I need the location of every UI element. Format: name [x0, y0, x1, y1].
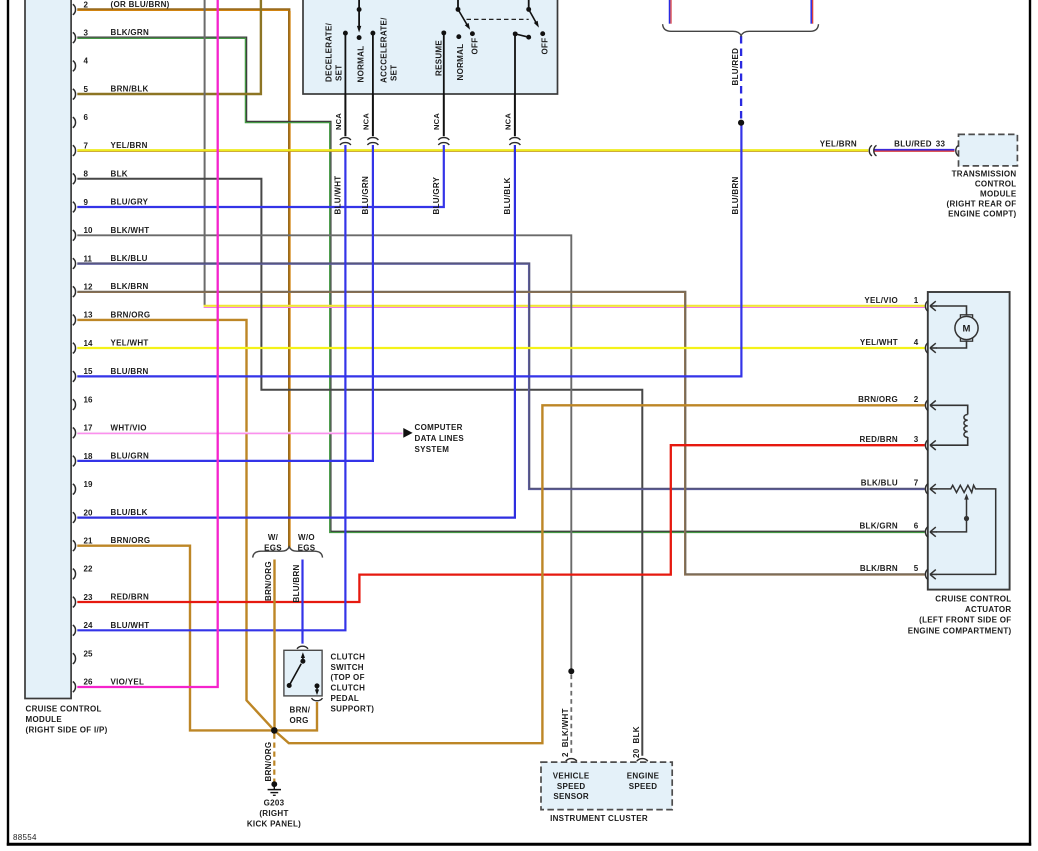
svg-text:12: 12	[84, 283, 93, 292]
pin 18 connector arc on module	[73, 456, 76, 467]
wire pin17 WHT/VIO module to computer data lines arrow	[77, 431, 402, 433]
svg-text:CONTROL: CONTROL	[975, 180, 1017, 189]
node clutch contact right	[315, 683, 320, 688]
off contact wire (BLU/BLK)	[514, 34, 516, 95]
svg-text:OFF: OFF	[471, 38, 480, 55]
svg-text:G203: G203	[264, 799, 285, 808]
svg-text:ENGINE: ENGINE	[627, 772, 660, 781]
svg-text:4: 4	[84, 57, 89, 66]
wire YEL/VIO from top (gray) elbow to actuator pin1	[204, 0, 206, 305]
svg-text:(LEFT FRONT SIDE OF: (LEFT FRONT SIDE OF	[919, 616, 1011, 625]
node splice BLU/RED to BLU/BRN	[738, 120, 744, 126]
svg-text:21: 21	[84, 536, 93, 545]
svg-text:11: 11	[84, 254, 93, 263]
pin 20 connector arc on module	[73, 512, 76, 523]
switch right arm to OFF	[529, 9, 537, 24]
connector engine speed pin 20	[637, 759, 648, 762]
svg-text:3: 3	[84, 29, 89, 38]
svg-text:19: 19	[84, 480, 93, 489]
svg-text:YEL/BRN: YEL/BRN	[111, 141, 148, 150]
svg-text:PEDAL: PEDAL	[331, 694, 360, 703]
svg-text:SET: SET	[334, 65, 343, 81]
svg-text:NCA: NCA	[334, 113, 343, 130]
pin 15 connector arc on module	[73, 371, 76, 382]
wire BLU/RED stub right above brace	[810, 0, 812, 24]
svg-text:14: 14	[84, 339, 93, 348]
pin 17 connector arc on module	[73, 428, 76, 439]
ground G203	[268, 781, 281, 795]
wire pin10 BLK/WHT module to vehicle speed sensor	[77, 235, 571, 671]
node normal contact left	[357, 35, 362, 40]
svg-text:NORMAL: NORMAL	[456, 44, 465, 81]
wire pin14 YEL/WHT module to actuator pin4	[77, 347, 925, 349]
svg-text:M: M	[963, 324, 971, 335]
svg-text:NCA: NCA	[432, 113, 441, 130]
motor M	[960, 315, 972, 320]
resistor (potentiometer)	[937, 485, 996, 574]
svg-text:NCA: NCA	[361, 113, 370, 130]
wire pin20 BLU/BLK module to switch connector	[77, 145, 515, 518]
decelerate contact wire	[344, 33, 346, 94]
pin 23 connector arc on module	[73, 597, 76, 608]
svg-text:BRN/BLK: BRN/BLK	[111, 85, 149, 94]
svg-text:CLUTCH: CLUTCH	[331, 684, 366, 693]
svg-text:7: 7	[84, 141, 89, 150]
switch right pivot stem	[528, 0, 530, 9]
svg-text:(RIGHT: (RIGHT	[259, 809, 288, 818]
wire BLU/BRN W/O EGS brace to clutch switch	[301, 560, 303, 644]
pin 11 connector arc on module	[73, 258, 76, 269]
svg-text:22: 22	[84, 565, 93, 574]
actuator pin 4 connector and arrow	[925, 343, 928, 354]
pin 26 connector arc on module	[73, 682, 76, 693]
svg-text:BLK/BRN: BLK/BRN	[860, 564, 898, 573]
svg-text:BLK/BLU: BLK/BLU	[111, 254, 148, 263]
pin 14 connector arc on module	[73, 343, 76, 354]
coil (solenoid)	[964, 415, 968, 438]
svg-text:6: 6	[84, 113, 89, 122]
connector in BLU/GRY wire	[438, 138, 449, 140]
arrow right OFF arm	[534, 21, 539, 28]
brace BLU/RED splice (top right)	[663, 24, 819, 36]
wire pin3 BLK/GRN module to actuator pin6	[77, 37, 925, 531]
svg-text:BRN/ORG: BRN/ORG	[264, 742, 273, 782]
wire pin15 BLU/BRN module to splice below BLU/RED	[77, 123, 741, 377]
instrument cluster box (dashed)	[541, 762, 672, 810]
svg-text:BLU/BRN: BLU/BRN	[292, 564, 301, 602]
svg-text:ACCCELERATE/: ACCCELERATE/	[380, 17, 389, 83]
svg-text:YEL/WHT: YEL/WHT	[111, 339, 149, 348]
svg-text:2: 2	[84, 0, 89, 9]
node pivot right	[526, 7, 531, 12]
svg-text:8: 8	[84, 170, 89, 179]
svg-text:BLK: BLK	[111, 169, 128, 178]
svg-text:BRN/: BRN/	[290, 706, 311, 715]
svg-text:SPEED: SPEED	[557, 782, 586, 791]
node arm end right	[526, 35, 531, 40]
connector at TCM pin 33	[956, 145, 959, 156]
svg-text:CLUTCH: CLUTCH	[331, 652, 366, 661]
svg-text:1: 1	[914, 296, 919, 305]
svg-text:BRN/ORG: BRN/ORG	[264, 561, 273, 601]
svg-text:BLU/GRY: BLU/GRY	[111, 198, 149, 207]
svg-text:VIO/YEL: VIO/YEL	[111, 677, 145, 686]
svg-text:BLU/GRY: BLU/GRY	[432, 176, 441, 214]
node decel contact	[343, 31, 348, 36]
wire BRN/ORG junction to actuator pin2	[274, 405, 925, 743]
svg-text:BLK/WHT: BLK/WHT	[111, 226, 150, 235]
arrow middle OFF arm	[465, 23, 470, 30]
svg-text:ORG: ORG	[290, 716, 309, 725]
actuator pin 3 connector and arrow	[925, 440, 928, 451]
svg-text:BLU/RED: BLU/RED	[894, 140, 932, 149]
svg-text:SET: SET	[390, 65, 399, 81]
svg-text:RED/BRN: RED/BRN	[111, 593, 150, 602]
svg-text:VEHICLE: VEHICLE	[553, 772, 590, 781]
svg-text:EGS: EGS	[264, 544, 282, 553]
wire pin12 BLK/BRN module to actuator pin5	[77, 292, 925, 575]
connector vehicle speed sensor pin 2	[566, 759, 577, 762]
pin 4 connector arc on module	[73, 61, 76, 72]
pin 5 connector arc on module	[73, 89, 76, 100]
cruise control module box	[25, 0, 71, 699]
svg-text:W/O: W/O	[298, 533, 315, 542]
svg-text:COMPUTER: COMPUTER	[415, 423, 463, 432]
wire pin18 BLU/GRN module to switch connector	[77, 145, 373, 461]
pin 16 connector arc on module	[73, 399, 76, 410]
node off contact middle	[470, 31, 475, 36]
svg-text:20 BLK: 20 BLK	[632, 726, 641, 758]
svg-text:BLU/WHT: BLU/WHT	[334, 176, 343, 215]
actuator pin 2 connector and arrow	[925, 400, 928, 411]
svg-text:2 BLK/WHT: 2 BLK/WHT	[561, 708, 570, 757]
wire BLU/RED stub left above brace	[669, 0, 671, 24]
wire NCA stub for BLU/BLK	[514, 95, 516, 137]
connector pair YEL/BRN to BLU/RED	[869, 145, 872, 156]
actuator pin 6 connector and arrow	[925, 527, 928, 538]
svg-text:DATA LINES: DATA LINES	[415, 434, 465, 443]
pin 19 connector arc on module	[73, 484, 76, 495]
connector in BLU/WHT wire	[340, 138, 351, 140]
pin 25 connector arc on module	[73, 653, 76, 664]
pin 10 connector arc on module	[73, 230, 76, 241]
svg-text:3: 3	[914, 435, 919, 444]
pin 7 connector arc on module	[73, 145, 76, 156]
wire NCA stub for BLU/GRY	[443, 95, 445, 137]
svg-text:(OR BLU/BRN): (OR BLU/BRN)	[111, 0, 170, 9]
svg-text:BRN/ORG: BRN/ORG	[111, 536, 151, 545]
svg-text:SUPPORT): SUPPORT)	[331, 705, 375, 714]
svg-text:TRANSMISSION: TRANSMISSION	[952, 170, 1017, 179]
pin 8 connector arc on module	[73, 174, 76, 185]
node pivot left	[357, 7, 362, 12]
svg-text:KICK PANEL): KICK PANEL)	[247, 820, 301, 829]
node pivot middle	[456, 7, 461, 12]
svg-text:(RIGHT SIDE OF I/P): (RIGHT SIDE OF I/P)	[26, 726, 108, 735]
connector above clutch switch	[297, 646, 308, 649]
svg-text:25: 25	[84, 649, 93, 658]
dashed gang link between OFF arms	[467, 18, 529, 20]
wire BLU/RED dashed from brace to splice dot	[740, 36, 742, 120]
svg-text:88554: 88554	[13, 833, 37, 842]
svg-text:BLK/BRN: BLK/BRN	[111, 282, 149, 291]
svg-text:4: 4	[914, 338, 919, 347]
svg-text:13: 13	[84, 311, 93, 320]
wire pin26 VIO/YEL module up off-page	[77, 0, 217, 687]
svg-text:BLU/BLK: BLU/BLK	[503, 177, 512, 214]
svg-text:ENGINE COMPARTMENT): ENGINE COMPARTMENT)	[908, 626, 1012, 635]
svg-text:ENGINE COMPT): ENGINE COMPT)	[948, 210, 1016, 219]
brace W/ EGS - W/O EGS split	[253, 547, 323, 558]
svg-text:BLU/BLK: BLU/BLK	[111, 508, 148, 517]
clutch switch box	[284, 650, 322, 696]
wire BRN/ORG clutch switch to junction	[274, 702, 317, 730]
pin 12 connector arc on module	[73, 286, 76, 297]
svg-text:YEL/WHT: YEL/WHT	[860, 338, 898, 347]
svg-text:RESUME: RESUME	[435, 40, 444, 76]
svg-text:RED/BRN: RED/BRN	[859, 435, 898, 444]
node wiper dot	[964, 516, 969, 521]
node off contact right	[540, 31, 545, 36]
svg-text:24: 24	[84, 621, 93, 630]
svg-text:BLK/GRN: BLK/GRN	[859, 522, 898, 531]
pin 21 connector arc on module	[73, 540, 76, 551]
pin 9 connector arc on module	[73, 202, 76, 213]
actuator pin 5 connector and arrow	[925, 569, 928, 580]
svg-text:BLU/BRN: BLU/BRN	[731, 176, 740, 214]
svg-text:SWITCH: SWITCH	[331, 663, 364, 672]
svg-text:BRN/ORG: BRN/ORG	[858, 395, 898, 404]
node clutch arm pivot	[300, 659, 305, 664]
svg-text:BLK/GRN: BLK/GRN	[111, 28, 150, 37]
svg-text:DECELERATE/: DECELERATE/	[325, 22, 334, 82]
wire NCA stub for BLU/WHT	[344, 95, 346, 137]
pin 13 connector arc on module	[73, 315, 76, 326]
svg-text:YEL/BRN: YEL/BRN	[820, 140, 857, 149]
cruise control switch assembly box	[303, 0, 558, 94]
pin 22 connector arc on module	[73, 569, 76, 580]
svg-text:33: 33	[936, 140, 946, 149]
svg-text:W/: W/	[268, 533, 279, 542]
svg-text:5: 5	[84, 85, 89, 94]
svg-text:6: 6	[914, 522, 919, 531]
svg-text:(TOP OF: (TOP OF	[331, 673, 365, 682]
pin 6 connector arc on module	[73, 117, 76, 128]
node junction BRN/ORG	[271, 727, 278, 734]
svg-text:BLK/BLU: BLK/BLU	[861, 479, 898, 488]
motor circuit wiring	[937, 306, 967, 315]
svg-text:YEL/VIO: YEL/VIO	[864, 296, 898, 305]
wire pin21 BRN/ORG module to junction	[77, 546, 272, 731]
svg-text:SPEED: SPEED	[629, 782, 658, 791]
svg-text:BLU/RED: BLU/RED	[731, 48, 740, 86]
accelerate contact wire	[372, 33, 374, 94]
svg-text:NORMAL: NORMAL	[356, 46, 365, 83]
actuator pin 7 connector and arrow	[925, 484, 928, 495]
svg-text:9: 9	[84, 198, 89, 207]
svg-text:10: 10	[84, 226, 93, 235]
node splice BLK/WHT	[568, 668, 574, 674]
pin 2 connector arc on module	[73, 4, 76, 15]
svg-text:BLU/GRN: BLU/GRN	[111, 452, 150, 461]
wire pin2 BRN/BLK (OR BLU/BRN) module to EGS brace	[77, 10, 289, 549]
node accel contact	[370, 31, 375, 36]
svg-text:WHT/VIO: WHT/VIO	[111, 423, 147, 432]
svg-text:MODULE: MODULE	[980, 190, 1017, 199]
wire pin9 BLU/GRY module to switch connector	[77, 145, 444, 207]
resume contact wire	[443, 33, 445, 95]
arrow computer data lines system	[403, 428, 412, 438]
wire pin7 YEL/BRN module to TCM connector	[77, 149, 868, 151]
actuator pin 1 connector and arrow	[925, 301, 928, 312]
svg-text:23: 23	[84, 593, 93, 602]
switch arm set/resume common from top	[358, 0, 360, 29]
svg-text:NCA: NCA	[503, 113, 512, 130]
node clutch contact left	[287, 683, 292, 688]
clutch switch arm	[289, 664, 301, 686]
arrow normal (left group)	[357, 26, 361, 33]
svg-text:2: 2	[914, 395, 919, 404]
svg-text:BRN/ORG: BRN/ORG	[111, 310, 151, 319]
switch middle pivot stem	[457, 0, 459, 9]
svg-text:7: 7	[914, 479, 919, 488]
wire pin5 BRN/BLK module up off-page	[77, 0, 261, 94]
svg-text:16: 16	[84, 395, 93, 404]
connector in BLU/BLK wire	[509, 138, 520, 140]
wire pin11 BLK/BLU module to actuator pin7	[77, 264, 925, 489]
svg-text:ACTUATOR: ACTUATOR	[965, 605, 1012, 614]
node resume contact	[441, 30, 446, 35]
pin 3 connector arc on module	[73, 32, 76, 43]
wire NCA stub for BLU/GRN	[372, 95, 374, 137]
pin 24 connector arc on module	[73, 625, 76, 636]
connector below clutch switch	[312, 698, 323, 701]
transmission control module box (dashed)	[959, 134, 1018, 166]
node normal contact middle	[456, 34, 461, 39]
svg-text:CRUISE CONTROL: CRUISE CONTROL	[935, 595, 1011, 604]
svg-text:CRUISE CONTROL: CRUISE CONTROL	[26, 705, 102, 714]
coil circuit wiring	[937, 405, 968, 414]
svg-text:18: 18	[84, 452, 93, 461]
svg-text:BLU/GRN: BLU/GRN	[361, 176, 370, 215]
svg-text:SENSOR: SENSOR	[553, 792, 589, 801]
svg-text:INSTRUMENT CLUSTER: INSTRUMENT CLUSTER	[550, 814, 648, 823]
svg-text:17: 17	[84, 424, 93, 433]
svg-text:(RIGHT REAR OF: (RIGHT REAR OF	[947, 200, 1017, 209]
cruise control actuator box	[928, 292, 1010, 590]
svg-text:OFF: OFF	[541, 38, 550, 55]
clutch right pin wire with arrow	[316, 686, 318, 690]
svg-text:MODULE: MODULE	[26, 715, 63, 724]
switch middle arm to OFF	[458, 9, 468, 25]
connector in BLU/GRN wire	[367, 138, 378, 140]
svg-text:BLU/WHT: BLU/WHT	[111, 621, 150, 630]
svg-text:5: 5	[914, 564, 919, 573]
svg-text:26: 26	[84, 678, 93, 687]
svg-text:15: 15	[84, 367, 93, 376]
svg-text:BLU/BRN: BLU/BRN	[111, 367, 149, 376]
wire BRN/ORG dashed to ground G203	[273, 734, 275, 782]
svg-text:20: 20	[84, 508, 93, 517]
wire pin8 BLK module to instrument cluster engine speed	[77, 179, 642, 756]
switch right moving contact segment	[515, 34, 529, 37]
node wire contact right	[513, 31, 518, 36]
wire BRN/ORG W/EGS brace to junction	[273, 560, 275, 731]
wiper arrow	[937, 498, 967, 532]
svg-text:SYSTEM: SYSTEM	[415, 445, 450, 454]
wire BLU/RED connector to TCM pin 33	[874, 149, 955, 151]
svg-text:EGS: EGS	[298, 544, 316, 553]
wire pin13 BRN/ORG module to junction	[77, 320, 274, 731]
wire pin23 RED/BRN module to actuator pin3	[77, 445, 925, 602]
wire pin24 BLU/WHT module to switch connector	[77, 145, 345, 630]
